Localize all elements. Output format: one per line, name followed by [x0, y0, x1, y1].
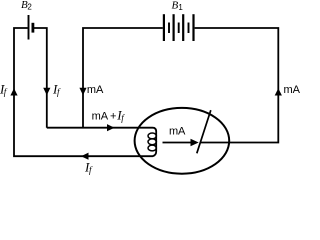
- svg-text:1: 1: [178, 3, 183, 12]
- svg-text:2: 2: [27, 2, 32, 11]
- svg-text:mA: mA: [169, 126, 186, 138]
- svg-text:mA: mA: [92, 111, 109, 123]
- svg-text:+: +: [110, 111, 116, 123]
- svg-text:mA: mA: [284, 84, 301, 96]
- svg-text:mA: mA: [87, 84, 104, 96]
